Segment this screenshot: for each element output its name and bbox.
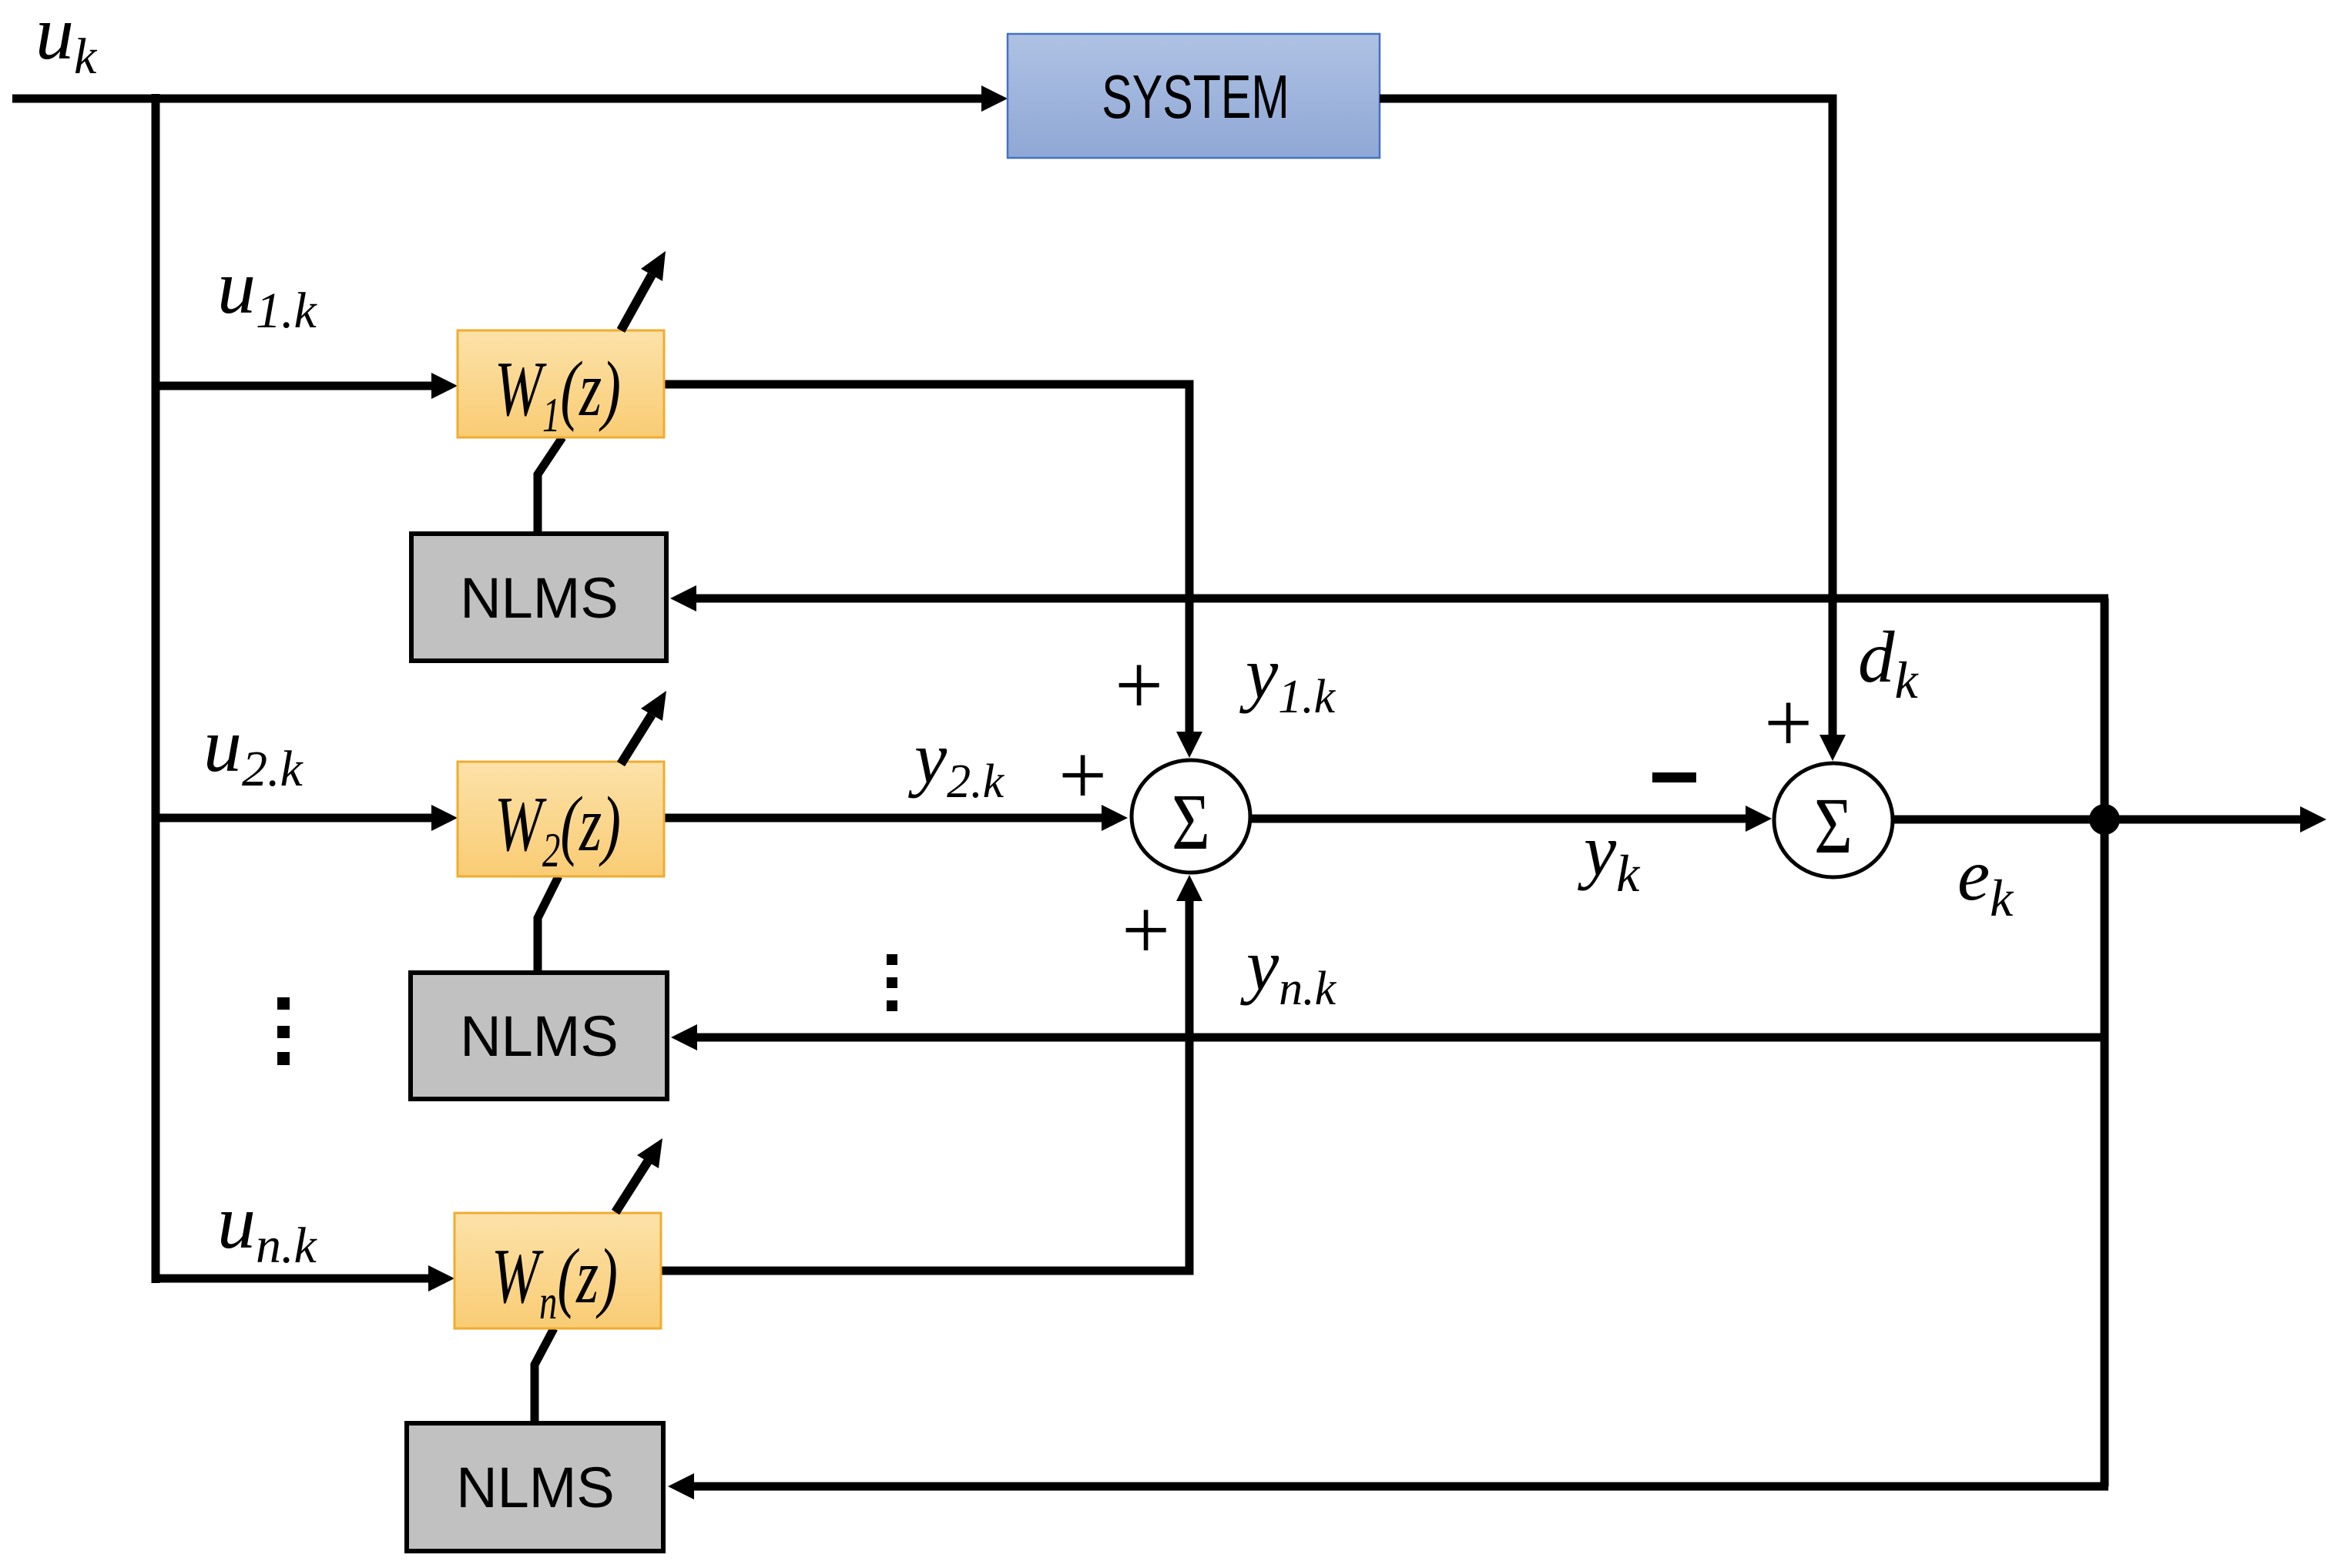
block NLMS 3 [407, 1423, 663, 1551]
arrowhead y_k into sigma2 [1746, 806, 1772, 832]
svg-text:+: + [1058, 728, 1107, 823]
arrowhead into NLMS2 [671, 1024, 697, 1050]
wire e_k output [1893, 816, 2303, 824]
wire feedback to NLMS2 [694, 1034, 2108, 1042]
svg-text:+: + [1122, 883, 1170, 978]
arrowhead into W2 [431, 805, 458, 831]
svg-text:Σ: Σ [1814, 781, 1853, 870]
svg-text:+: + [1115, 638, 1163, 733]
svg-text:Σ: Σ [1172, 777, 1210, 866]
wire W2 to NLMS2 connector [538, 876, 558, 970]
block W2(z) [458, 762, 664, 876]
wire SYSTEM output d_k [1380, 99, 1833, 738]
wire Wn to NLMS3 connector [535, 1328, 554, 1421]
wire u_n.k branch [156, 1275, 431, 1283]
wire W1 to NLMS1 connector [538, 437, 562, 531]
arrowhead into W1 [431, 373, 458, 399]
adaptation arrow W2 [621, 715, 652, 764]
wire W2 output to sigma [664, 814, 1105, 823]
block W1(z) [458, 330, 664, 437]
arrowhead e_k output [2300, 806, 2326, 833]
wire left distribution trunk [152, 94, 160, 1283]
svg-text:NLMS: NLMS [460, 566, 619, 630]
vertical ellipsis dots left [277, 997, 290, 1010]
summing node sigma 1 [1132, 760, 1250, 873]
block SYSTEM [1008, 34, 1380, 158]
arrowhead y_2.k into sigma left [1102, 805, 1128, 831]
block Wn(z) [454, 1213, 661, 1328]
block NLMS 2 [411, 973, 667, 1099]
arrowhead into Wn [428, 1265, 454, 1292]
junction dot on e_k line [2089, 804, 2120, 835]
wire Wn output up to sigma bottom [661, 898, 1189, 1271]
summing node sigma 2 [1774, 763, 1893, 877]
arrowhead y_n.k into sigma bottom [1176, 875, 1202, 901]
wire feedback to NLMS3 [691, 1483, 2108, 1491]
wire feedback to NLMS1 [693, 595, 2108, 603]
arrowhead d_k into sigma2 top [1819, 735, 1846, 761]
adaptation arrow W1 [621, 275, 652, 330]
wire W1 output to sum junction [664, 384, 1189, 735]
svg-text:NLMS: NLMS [456, 1456, 615, 1519]
svg-text:+: + [1764, 675, 1813, 771]
wire u_1.k branch [156, 382, 434, 390]
svg-text:NLMS: NLMS [460, 1004, 619, 1068]
wire feedback trunk vertical [2101, 598, 2109, 1486]
wire u_k main input line [12, 95, 984, 103]
wire y_k from sigma1 to sigma2 [1250, 815, 1749, 823]
block NLMS 1 [411, 534, 666, 661]
arrowhead into NLMS1 [670, 585, 696, 611]
vertical ellipsis dots center [887, 954, 897, 965]
arrowhead y_1.k into sigma top [1176, 732, 1202, 758]
arrowhead into SYSTEM [981, 85, 1008, 112]
svg-text:SYSTEM: SYSTEM [1102, 62, 1289, 131]
adaptation arrow Wn [615, 1161, 648, 1212]
wire u_2.k branch [156, 814, 434, 823]
minus sign for y_k [1652, 772, 1696, 782]
arrowhead into NLMS3 [668, 1473, 694, 1499]
